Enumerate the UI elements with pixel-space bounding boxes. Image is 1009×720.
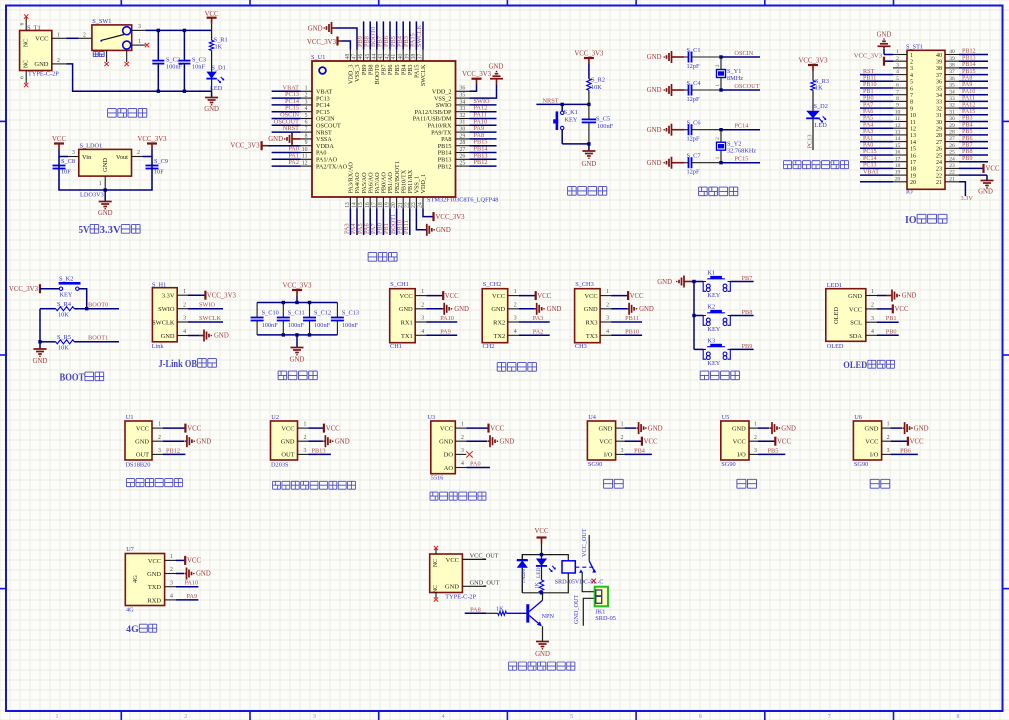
- svg-text:2: 2: [304, 435, 307, 441]
- svg-text:GND: GND: [204, 106, 219, 113]
- U1 pin 24 VDD_1: [418, 197, 424, 209]
- key K1 wire PB7: [694, 275, 754, 282]
- LED relay indicator: [536, 555, 556, 580]
- capacitor S_C13 100nF: [331, 303, 359, 335]
- title dianyuan dianlu: [108, 109, 147, 118]
- S_CH1 pin 2 GND: [415, 302, 442, 308]
- svg-text:PB12: PB12: [962, 49, 976, 55]
- svg-text:23: 23: [949, 163, 955, 169]
- svg-text:RX1: RX1: [401, 320, 413, 327]
- U4 pin 3 PB4: [616, 447, 652, 454]
- svg-text:STM32F103C8T6_LQFP48: STM32F103C8T6_LQFP48: [427, 197, 498, 204]
- U1 pin 18 PB0/AO: [377, 197, 384, 235]
- svg-text:VCC: VCC: [777, 438, 791, 445]
- svg-text:GND_OUT: GND_OUT: [470, 579, 500, 586]
- U1 pin 34 SWIO: [456, 98, 497, 105]
- LED1 pin 1 GND: [866, 289, 887, 295]
- svg-text:36: 36: [949, 76, 955, 82]
- svg-text:1: 1: [138, 39, 141, 45]
- T1 pin 2 GND stub: [52, 58, 67, 64]
- svg-text:4: 4: [170, 594, 173, 600]
- module U2 D203S: [271, 414, 298, 469]
- svg-text:1: 1: [606, 289, 609, 295]
- ST1 right pin 21: [945, 176, 965, 196]
- svg-text:S_C10: S_C10: [262, 309, 279, 316]
- svg-text:32.768KHz: 32.768KHz: [727, 148, 756, 155]
- U1 pin 28 PB15: [456, 139, 497, 146]
- svg-text:VCC: VCC: [630, 293, 644, 300]
- svg-text:1N4007: 1N4007: [521, 566, 527, 584]
- svg-text:3: 3: [72, 150, 75, 156]
- ST1 right pin 28: [945, 129, 988, 135]
- U1 pin 26 PB13: [456, 152, 497, 159]
- U1 pin 2 GND: [152, 435, 184, 441]
- ST1 left pin 7: [860, 89, 907, 95]
- svg-text:D203S: D203S: [271, 462, 289, 469]
- svg-text:PB13: PB13: [962, 55, 976, 61]
- svg-text:30: 30: [936, 120, 942, 126]
- svg-text:GND: GND: [454, 306, 469, 313]
- net label NRST wire: [536, 97, 590, 106]
- svg-text:33: 33: [949, 96, 955, 102]
- H1 pin 1 3.3V: [177, 289, 205, 295]
- svg-text:1K: 1K: [535, 582, 541, 589]
- svg-text:BOOT: BOOT: [60, 373, 85, 384]
- svg-text:PA12: PA12: [962, 102, 975, 108]
- svg-text:S_R4: S_R4: [57, 301, 72, 308]
- svg-text:GND: GND: [647, 87, 662, 94]
- ST1 left pin 14: [860, 136, 907, 142]
- power VCC U6: [908, 437, 924, 446]
- svg-text:13: 13: [910, 133, 916, 139]
- svg-text:3: 3: [421, 316, 424, 322]
- svg-text:GND: GND: [848, 293, 862, 300]
- header S_CH1: [390, 281, 416, 350]
- wire net OSCOUT: [719, 83, 760, 92]
- svg-text:12: 12: [895, 123, 901, 129]
- svg-text:KEY: KEY: [565, 116, 578, 123]
- svg-text:S_C6: S_C6: [687, 120, 701, 127]
- svg-text:3: 3: [514, 316, 517, 322]
- ground GND S_CH1: [442, 303, 469, 315]
- svg-text:S_Y2: S_Y2: [727, 141, 741, 148]
- svg-text:GND: GND: [33, 358, 48, 365]
- module LED1 OLED: [826, 282, 866, 350]
- crystal S_Y1 8MHz: [716, 57, 743, 90]
- net label VCC_OUT wire: [462, 552, 498, 559]
- svg-text:GND: GND: [34, 61, 48, 68]
- wire VCC to K2: [40, 288, 59, 290]
- svg-text:IO: IO: [905, 215, 917, 226]
- U1 pin 9 VDDA: [301, 140, 312, 146]
- title OLED display: [843, 360, 894, 370]
- module U5 SG90 servo: [721, 414, 749, 468]
- svg-text:PB13: PB13: [312, 447, 326, 454]
- svg-text:VCC_OUT: VCC_OUT: [581, 528, 588, 557]
- svg-text:KEY: KEY: [707, 326, 720, 333]
- svg-text:1: 1: [871, 289, 874, 295]
- svg-text:VCC: VCC: [865, 438, 878, 445]
- svg-text:GND: GND: [547, 306, 562, 313]
- svg-text:SDA: SDA: [849, 333, 862, 340]
- connector JK1 SRD-05: [595, 587, 616, 622]
- svg-text:25: 25: [936, 153, 942, 159]
- svg-text:GND: GND: [647, 54, 662, 61]
- key K3: [703, 337, 730, 367]
- svg-text:37: 37: [418, 54, 424, 60]
- svg-text:VCC: VCC: [326, 425, 340, 432]
- U1 left pin names: [316, 89, 348, 171]
- power VCC S_CH2: [536, 291, 552, 300]
- svg-text:31: 31: [949, 109, 955, 115]
- svg-text:40: 40: [936, 53, 942, 59]
- keys feed wire: [692, 280, 695, 350]
- H1 pin 4 GND: [177, 329, 199, 335]
- svg-text:GND: GND: [865, 425, 879, 432]
- U2 pin 2 GND: [298, 435, 323, 441]
- svg-text:39: 39: [936, 60, 942, 66]
- connector T2 TYPE-C-2P output: [430, 554, 477, 600]
- svg-text:2: 2: [896, 56, 899, 62]
- key K3 wire PB9: [694, 343, 754, 350]
- svg-text:VCC_3V3: VCC_3V3: [854, 53, 883, 60]
- svg-text:5: 5: [570, 714, 573, 720]
- svg-text:GND: GND: [582, 161, 597, 168]
- svg-text:GND: GND: [978, 189, 993, 196]
- svg-text:PB12: PB12: [166, 447, 180, 454]
- svg-text:1: 1: [754, 422, 757, 428]
- key K2: [703, 304, 730, 334]
- svg-text:GND_OUT: GND_OUT: [573, 595, 580, 624]
- svg-text:1: 1: [170, 554, 173, 560]
- svg-text:U5: U5: [722, 414, 730, 421]
- svg-text:SG90: SG90: [588, 461, 602, 468]
- svg-text:32: 32: [936, 106, 942, 112]
- svg-text:RST: RST: [863, 69, 874, 75]
- U1 pin 15 PA5/AO: [357, 197, 364, 235]
- power VCC: [205, 11, 219, 30]
- svg-text:26: 26: [460, 154, 466, 160]
- svg-text:9: 9: [896, 103, 899, 109]
- svg-text:100nF: 100nF: [288, 322, 305, 329]
- svg-text:8: 8: [305, 133, 308, 139]
- S_CH1 pin 1 VCC: [415, 289, 443, 295]
- svg-text:38: 38: [949, 63, 955, 69]
- svg-text:3: 3: [606, 316, 609, 322]
- svg-text:2: 2: [184, 714, 187, 720]
- svg-text:34: 34: [949, 89, 955, 95]
- svg-text:VCC: VCC: [187, 558, 201, 565]
- svg-text:PB15: PB15: [962, 69, 976, 75]
- title J-Link OB: [159, 359, 217, 370]
- svg-text:KEY: KEY: [60, 291, 73, 298]
- U7 pin 2 GND: [165, 567, 184, 573]
- net label BOOT0 wire: [74, 301, 119, 308]
- svg-text:45: 45: [365, 54, 371, 60]
- power VCC S_CH3: [628, 291, 644, 300]
- svg-text:VCC: VCC: [490, 425, 504, 432]
- svg-text:31: 31: [936, 113, 942, 119]
- power VCC_3V3 reset: [574, 51, 604, 79]
- wire reset bottom: [562, 142, 590, 145]
- svg-text:GND: GND: [781, 425, 796, 432]
- svg-text:GND: GND: [399, 306, 413, 313]
- module U6 SG90 servo: [853, 414, 881, 468]
- ground GND S_CH3: [627, 303, 654, 315]
- svg-text:VCC: VCC: [52, 136, 66, 143]
- U1 pin 8 VSSA: [301, 133, 312, 139]
- svg-text:S_D1: S_D1: [211, 65, 225, 72]
- svg-text:S_C4: S_C4: [687, 80, 702, 87]
- ST1 right pin 24: [945, 156, 988, 162]
- svg-text:PA3: PA3: [863, 129, 873, 135]
- connector T1 TYPE-C-2P: [20, 25, 60, 78]
- power VCC_3V3 out: [137, 136, 167, 157]
- svg-text:SG90: SG90: [854, 461, 868, 468]
- bottom rail wire LDO: [59, 157, 152, 192]
- svg-text:PA5: PA5: [863, 116, 873, 122]
- svg-text:PA10: PA10: [440, 315, 454, 322]
- svg-text:VCC: VCC: [445, 293, 459, 300]
- title crystal circuit: [699, 187, 738, 196]
- svg-text:38: 38: [936, 66, 942, 72]
- svg-text:BOOT0: BOOT0: [88, 301, 108, 308]
- SW1 bottom pins with no-ERC: [104, 50, 128, 66]
- svg-text:CH1: CH1: [390, 343, 402, 350]
- ST1 left pin 1: [884, 49, 907, 55]
- capacitor S_C6 12pF: [684, 120, 721, 143]
- U1 pin 16 PA6/AO: [363, 197, 370, 235]
- svg-text:42: 42: [385, 54, 391, 60]
- svg-text:35: 35: [460, 93, 466, 99]
- power VCC S_CH1: [443, 291, 459, 300]
- svg-text:TX1: TX1: [401, 333, 413, 340]
- relay frame wires: [522, 553, 568, 595]
- U1 pin 2 PC13: [272, 91, 312, 98]
- power VCC_3V3 at U1 VDD_3 pin48: [307, 37, 350, 50]
- svg-text:S_R5: S_R5: [57, 334, 71, 341]
- T1 bottom pin 6 with no-ERC: [20, 71, 29, 88]
- LDO pin 3 stub: [68, 150, 79, 157]
- svg-text:U6: U6: [854, 414, 862, 421]
- svg-text:PB5: PB5: [962, 129, 973, 135]
- ST1 left pin 12: [860, 122, 907, 128]
- svg-text:VCC: VCC: [849, 306, 862, 313]
- ST1 left pin 17: [860, 156, 907, 162]
- svg-text:22: 22: [949, 170, 955, 176]
- ST1 left pin 10: [860, 109, 907, 115]
- svg-text:9: 9: [910, 106, 913, 112]
- ground GND U5: [770, 422, 796, 434]
- svg-text:GND: GND: [599, 425, 613, 432]
- capacitor C5 100nF: [582, 104, 614, 143]
- svg-text:38: 38: [411, 54, 417, 60]
- ground GND U6: [903, 422, 929, 434]
- T2 top pin with no-ERC: [434, 546, 438, 554]
- svg-text:36: 36: [936, 80, 942, 86]
- svg-text:19: 19: [895, 170, 901, 176]
- svg-text:1: 1: [461, 422, 464, 428]
- U1 pin 14 PA4/AO: [350, 197, 357, 235]
- svg-text:PB0: PB0: [886, 328, 897, 335]
- svg-text:S_C12: S_C12: [314, 309, 331, 316]
- svg-text:GND: GND: [281, 438, 295, 445]
- resistor R1 1K: [209, 30, 227, 71]
- key K2 BOOT0: [59, 276, 81, 299]
- LED1 pin 3 PB1: [866, 315, 899, 322]
- wire T1 VCC to SW1: [67, 37, 79, 39]
- svg-text:VCC: VCC: [35, 36, 48, 43]
- power VCC_3V3 filter: [282, 283, 312, 303]
- svg-text:8: 8: [910, 100, 913, 106]
- U3 pin 1 VCC: [455, 422, 488, 428]
- filter top rail: [257, 301, 337, 304]
- ground GND ST1 pin22: [978, 175, 993, 195]
- svg-text:6: 6: [305, 120, 308, 126]
- wire GND_OUT to JK1 pin2: [573, 595, 596, 626]
- svg-text:100nF: 100nF: [314, 322, 331, 329]
- svg-text:PA2: PA2: [288, 159, 299, 166]
- svg-text:NRST: NRST: [283, 125, 299, 132]
- filter bottom rail: [257, 333, 337, 336]
- H1 pin 2 SWIO: [177, 302, 223, 309]
- svg-text:7: 7: [910, 93, 913, 99]
- svg-text:2: 2: [305, 93, 308, 99]
- svg-text:PC15: PC15: [734, 156, 748, 163]
- svg-text:S_C1: S_C1: [687, 47, 701, 54]
- svg-text:4: 4: [606, 329, 609, 335]
- power VCC OLED: [893, 304, 909, 313]
- svg-text:S_U1: S_U1: [311, 54, 325, 61]
- svg-text:LDO3V3: LDO3V3: [80, 192, 104, 199]
- capacitor S_C7 12pF: [684, 153, 721, 176]
- U1 pin 4 PC15: [272, 105, 312, 112]
- svg-text:PA8: PA8: [962, 76, 972, 82]
- U4 pin 1 GND: [616, 422, 637, 428]
- wire relay to JK1 pin1: [582, 573, 596, 592]
- switch SW1: [92, 18, 132, 57]
- svg-text:LED: LED: [536, 567, 542, 578]
- svg-text:15: 15: [895, 143, 901, 149]
- wire K2 to BOOT0 row: [79, 289, 88, 311]
- svg-text:31: 31: [460, 120, 466, 126]
- ST1 left pin 4: [860, 69, 907, 75]
- svg-text:37: 37: [936, 73, 942, 79]
- svg-text:VCC: VCC: [986, 166, 1000, 173]
- SW1 pin 3 stub: [132, 24, 146, 30]
- ground GND at U1 VSS_3 pin47: [308, 22, 357, 50]
- power VCC U7: [185, 556, 201, 565]
- SW1 pin 2 stub: [79, 32, 93, 38]
- svg-text:PB11: PB11: [403, 220, 410, 234]
- svg-text:33: 33: [460, 106, 466, 112]
- svg-text:1: 1: [158, 422, 161, 428]
- net label 3.3V ST1 pin21: [961, 195, 974, 202]
- U1 pin 25 PB12: [456, 159, 497, 166]
- U1 pin 48 VDD_3: [345, 50, 351, 62]
- net label PA8 wire: [465, 606, 486, 613]
- svg-text:3: 3: [621, 448, 624, 454]
- capacitor S_C11 100nF: [277, 303, 305, 335]
- LDO pin 1 GND stub: [99, 176, 105, 190]
- svg-text:5V: 5V: [79, 225, 91, 236]
- svg-text:IO: IO: [906, 189, 913, 196]
- resistor R4 10K: [40, 301, 74, 319]
- ST1 left pin 9: [860, 102, 907, 108]
- title 4G module: [126, 624, 157, 635]
- svg-text:16: 16: [365, 202, 371, 208]
- S_CH2 pin 2 GND: [508, 302, 535, 308]
- power VCC_3V3 ST1 pin2: [854, 53, 884, 66]
- svg-text:VCC_3V3: VCC_3V3: [282, 283, 312, 290]
- svg-text:29: 29: [460, 133, 466, 139]
- U1 pin 19 PB1/AO: [383, 197, 390, 235]
- svg-text:PA0: PA0: [863, 143, 873, 149]
- svg-text:27: 27: [460, 147, 466, 153]
- S_CH3 pin 3 PB11: [600, 315, 642, 322]
- svg-text:3: 3: [754, 448, 757, 454]
- net label BOOT1 wire: [74, 334, 119, 341]
- svg-text:6: 6: [910, 86, 913, 92]
- svg-text:23: 23: [936, 167, 942, 173]
- key K1: [703, 270, 730, 300]
- svg-text:4G: 4G: [132, 575, 139, 583]
- ST1 inner pin numbers: [910, 53, 942, 186]
- resistor base 1K: [486, 605, 526, 615]
- ST1 right pin 25: [945, 149, 988, 155]
- U1 pin 38 PA15: [410, 21, 417, 61]
- svg-text:PA10: PA10: [962, 89, 975, 95]
- svg-text:VCC: VCC: [910, 438, 924, 445]
- svg-text:12pF: 12pF: [687, 63, 700, 70]
- ST1 left pin 19: [860, 169, 907, 175]
- svg-text:GND: GND: [268, 136, 283, 143]
- svg-text:I/O: I/O: [737, 452, 746, 459]
- svg-text:1: 1: [56, 714, 59, 720]
- S_CH2 pin 1 VCC: [508, 289, 536, 295]
- power VCC for LDO: [52, 136, 66, 157]
- title servo 2: [737, 479, 757, 488]
- U1 pin 3 PB12: [152, 447, 185, 454]
- ST1 left pin 16: [860, 149, 907, 155]
- svg-text:24: 24: [949, 156, 955, 162]
- svg-text:SWCLK: SWCLK: [199, 315, 221, 322]
- U3 pin 2 GND: [455, 435, 487, 441]
- svg-text:I/O: I/O: [870, 452, 879, 459]
- svg-text:100nF: 100nF: [597, 123, 614, 130]
- svg-text:4: 4: [461, 461, 464, 467]
- svg-text:RX2: RX2: [493, 320, 505, 327]
- svg-text:PC14: PC14: [863, 156, 877, 162]
- capacitor C8 10uF: [53, 157, 76, 191]
- svg-text:28: 28: [460, 140, 466, 146]
- svg-text:S_LDO1: S_LDO1: [80, 143, 103, 150]
- svg-text:PA7: PA7: [863, 102, 873, 108]
- ground GND relay: [535, 642, 550, 659]
- resistor R3 1K: [811, 78, 829, 111]
- ST1 right pin 32: [945, 102, 988, 108]
- module U7 4G: [125, 546, 164, 614]
- svg-text:2: 2: [606, 302, 609, 308]
- svg-text:12pF: 12pF: [687, 136, 700, 143]
- ground GND at U1 VSSA: [268, 133, 301, 145]
- svg-text:32: 32: [949, 103, 955, 109]
- svg-text:S_K1: S_K1: [564, 109, 578, 116]
- svg-text:GND: GND: [535, 651, 550, 658]
- svg-text:PB10: PB10: [863, 82, 877, 88]
- svg-text:8: 8: [956, 714, 959, 720]
- svg-text:27: 27: [936, 140, 942, 146]
